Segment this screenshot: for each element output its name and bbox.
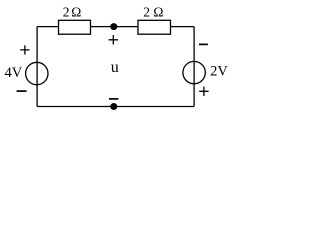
svg-text:2: 2	[143, 5, 150, 20]
polarity plus of 2V source	[199, 87, 208, 96]
voltage source 2V	[183, 61, 205, 83]
resistor R1	[59, 20, 91, 34]
wire node a to R2	[114, 26, 138, 28]
svg-text:2: 2	[63, 5, 70, 20]
wire right side	[193, 27, 195, 107]
polarity plus of voltage u	[109, 35, 118, 44]
polarity minus of 4V source	[17, 90, 27, 92]
wire R1 to node a	[91, 26, 114, 28]
svg-text:Ω: Ω	[153, 5, 163, 20]
resistor R2	[138, 20, 171, 34]
polarity minus of 2V source	[199, 43, 208, 45]
node b	[110, 103, 117, 110]
polarity minus of voltage u	[109, 98, 118, 100]
svg-text:u: u	[111, 59, 119, 76]
wire top-left segment	[37, 26, 58, 28]
wire bottom	[37, 106, 194, 108]
svg-text:Ω: Ω	[71, 5, 81, 20]
polarity plus of 4V source	[20, 45, 29, 54]
svg-text:4V: 4V	[5, 65, 23, 81]
wire left side	[36, 27, 38, 107]
wire R2 to top-right corner	[171, 26, 195, 28]
voltage source 4V	[26, 62, 48, 84]
svg-text:2V: 2V	[210, 64, 228, 80]
node a	[110, 23, 117, 30]
